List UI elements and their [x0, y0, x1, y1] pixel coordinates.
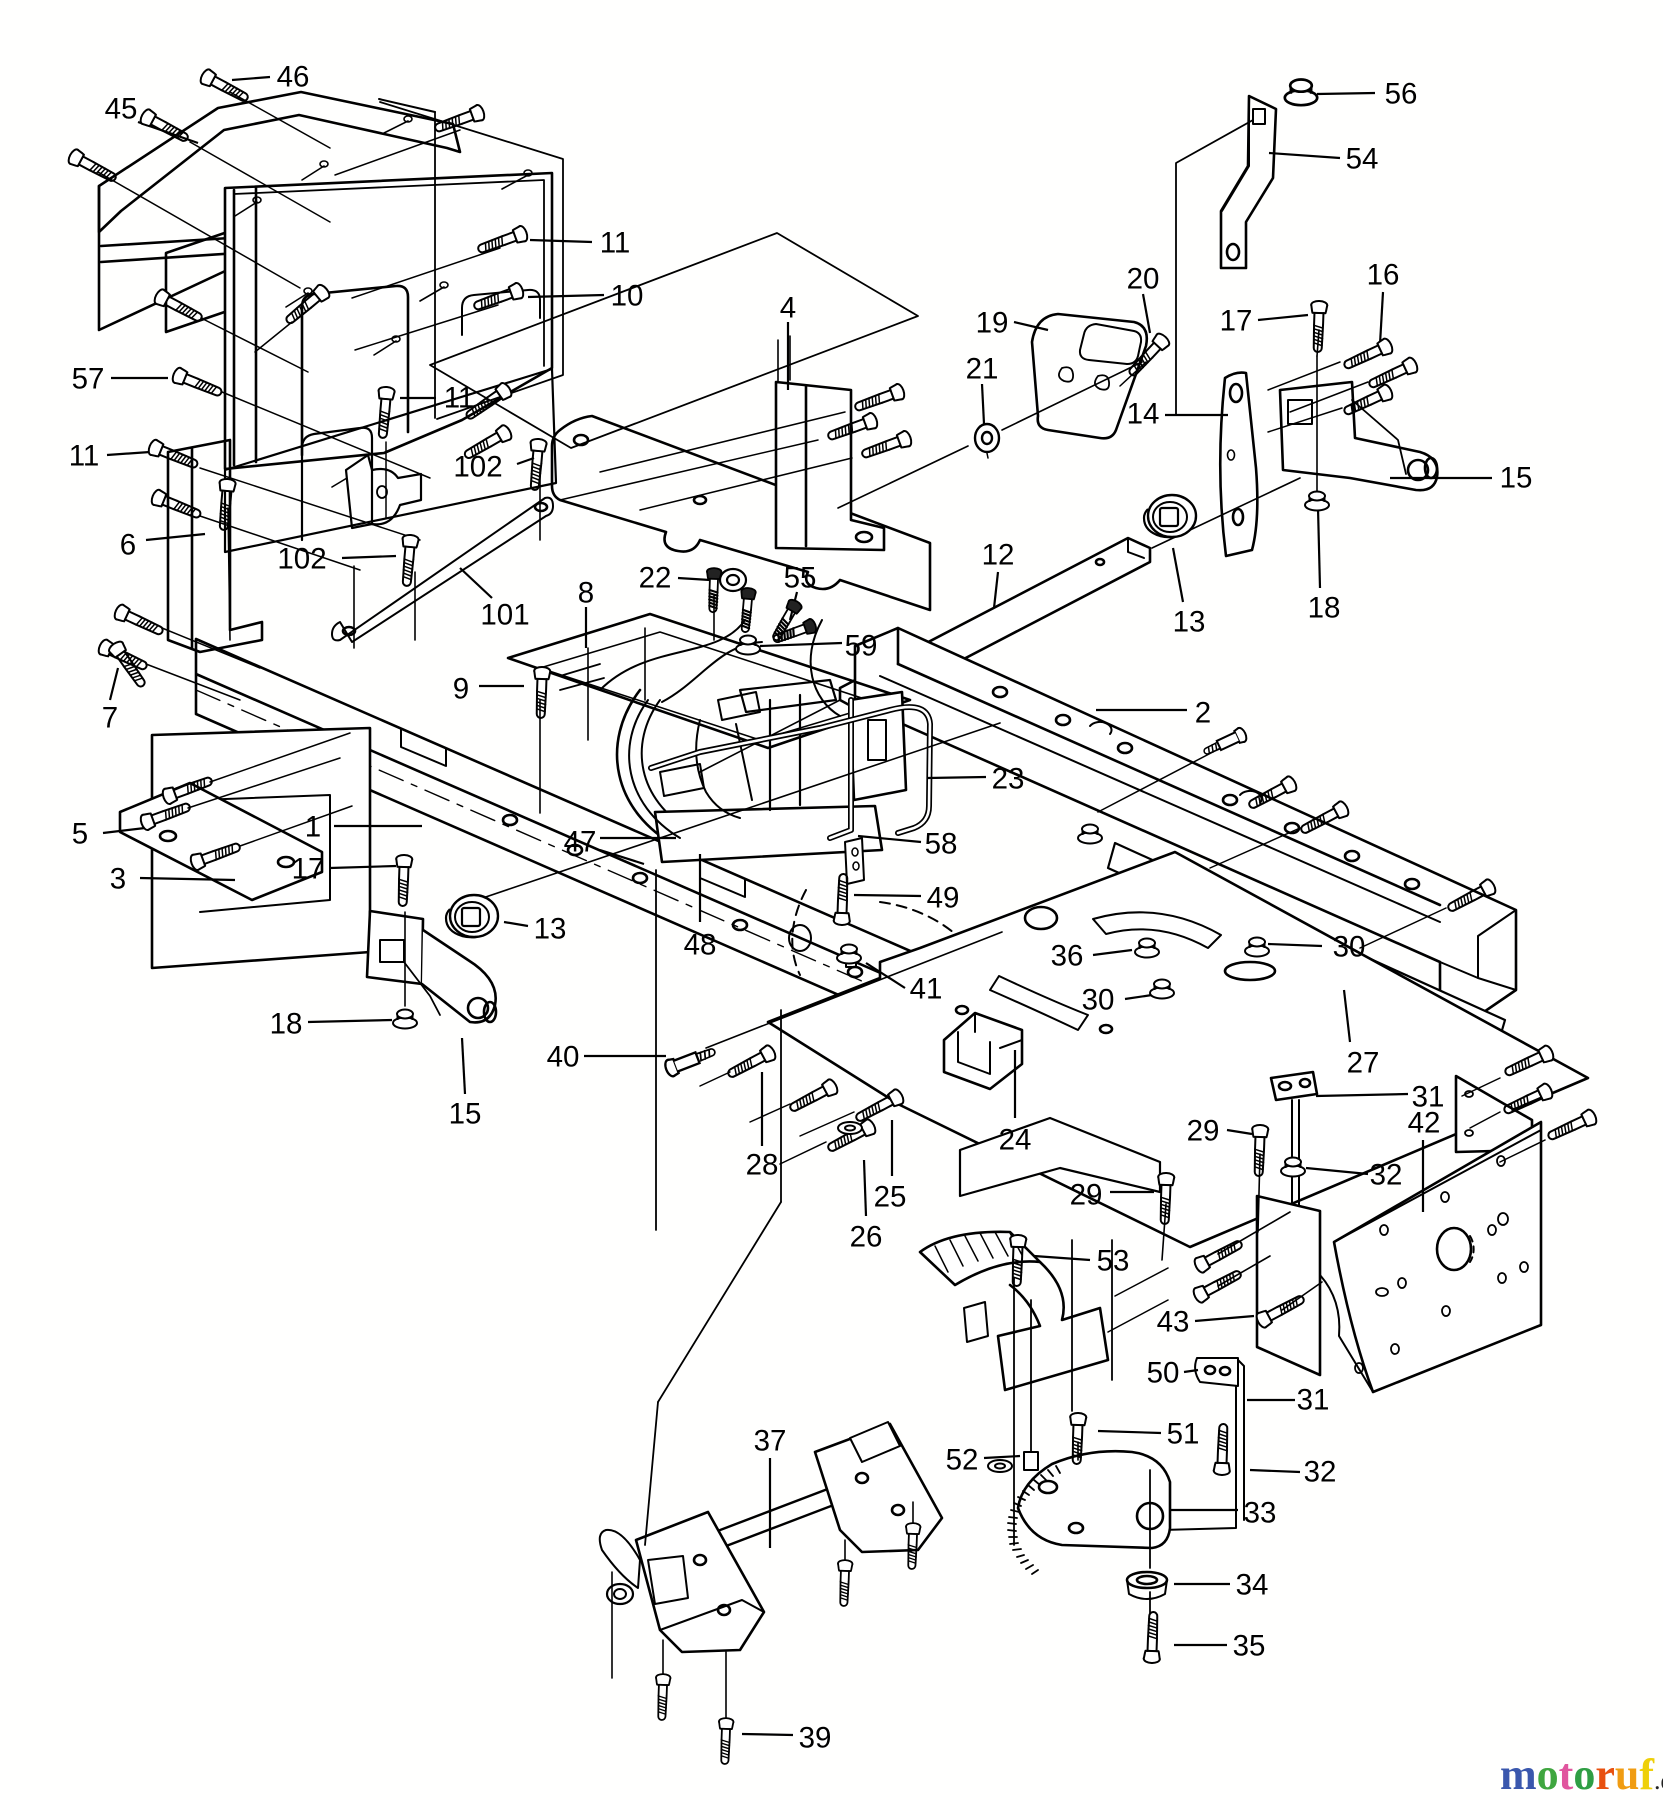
backing plate parallelogram	[430, 233, 918, 448]
panel 10 U-notch	[302, 286, 408, 455]
svg-text:9: 9	[453, 673, 469, 706]
svg-text:23: 23	[992, 763, 1025, 796]
bolt b10	[472, 282, 525, 314]
bolt b51	[1069, 1413, 1087, 1465]
svg-text:29: 29	[1070, 1179, 1103, 1212]
svg-text:101: 101	[480, 599, 529, 632]
crank lever	[600, 1530, 640, 1588]
svg-text:16: 16	[1367, 259, 1400, 292]
bushing 13L	[446, 895, 498, 937]
svg-text:32: 32	[1370, 1159, 1403, 1192]
dashed arcs 49	[880, 902, 992, 1008]
svg-text:39: 39	[799, 1722, 832, 1755]
svg-text:6: 6	[120, 529, 136, 562]
svg-text:40: 40	[547, 1041, 580, 1074]
bolt b43	[1255, 1291, 1308, 1329]
collar 22	[720, 569, 746, 591]
bolt b5a	[139, 799, 192, 831]
svg-text:48: 48	[684, 929, 717, 962]
bolt4 axes	[600, 412, 845, 472]
svg-text:35: 35	[1233, 1630, 1266, 1663]
svg-text:8: 8	[578, 577, 594, 610]
stud rail2	[1201, 726, 1248, 759]
rear panel 11	[380, 102, 563, 419]
bolt d55c	[771, 618, 817, 647]
mid shelf panel	[552, 416, 930, 610]
bolt b28	[725, 1044, 778, 1082]
rod 31b	[1236, 1360, 1244, 1456]
svg-text:7: 7	[102, 702, 118, 735]
svg-text:24: 24	[999, 1124, 1032, 1157]
gear teeth	[1008, 1466, 1060, 1574]
svg-text:47: 47	[564, 826, 597, 859]
bolt b53	[1009, 1235, 1027, 1287]
svg-text:2: 2	[1195, 697, 1211, 730]
washer wx	[838, 1122, 862, 1134]
stud 40	[663, 1043, 717, 1078]
pin-hole marks	[235, 121, 528, 487]
bolt b11m	[375, 386, 395, 438]
bolt b42b	[1501, 1082, 1554, 1118]
svg-text:43: 43	[1157, 1306, 1190, 1339]
svg-text:55: 55	[784, 562, 817, 595]
bracket 15R	[1280, 382, 1437, 490]
svg-text:13: 13	[1173, 606, 1206, 639]
svg-text:20: 20	[1127, 263, 1160, 296]
bolt d55a	[738, 588, 756, 633]
bolt b45a	[139, 108, 192, 146]
tube 12	[840, 538, 1150, 712]
svg-text:53: 53	[1097, 1245, 1130, 1278]
svg-text:36: 36	[1051, 940, 1084, 973]
svg-text:30: 30	[1333, 931, 1366, 964]
bolt b4b	[826, 412, 879, 444]
bolt bx5	[216, 478, 236, 530]
box 42	[1456, 1076, 1532, 1152]
bolt br2a	[1246, 775, 1299, 813]
svg-text:17: 17	[1220, 305, 1253, 338]
nut n30a	[1245, 938, 1269, 957]
svg-text:57: 57	[72, 363, 105, 396]
svg-text:19: 19	[976, 307, 1009, 340]
left mount plate	[636, 1512, 764, 1652]
bolt br2c	[1445, 878, 1498, 916]
bolt b25	[853, 1088, 906, 1126]
svg-text:42: 42	[1408, 1107, 1441, 1140]
svg-text:14: 14	[1127, 398, 1160, 431]
bolt b29a	[1251, 1125, 1269, 1177]
under bracket	[960, 1118, 1160, 1196]
bolt b11	[476, 225, 529, 257]
bolt b16a	[1341, 337, 1394, 373]
svg-text:29: 29	[1187, 1115, 1220, 1148]
svg-text:11: 11	[69, 440, 100, 473]
bolt b29b	[1157, 1173, 1175, 1225]
bolt b45c	[153, 288, 206, 326]
bolt b39	[718, 1718, 734, 1764]
bolt b16c	[1341, 383, 1394, 419]
washer w52	[988, 1460, 1012, 1472]
svg-text:15: 15	[1500, 462, 1533, 495]
bolt bx6	[113, 603, 166, 639]
bolt b17L	[395, 855, 413, 907]
svg-text:1: 1	[305, 811, 321, 844]
nut nr2	[1078, 825, 1102, 844]
bolt b5b	[161, 773, 214, 805]
svg-text:28: 28	[746, 1149, 779, 1182]
bolt bx7	[97, 638, 150, 674]
bolt b42d	[1193, 1236, 1246, 1274]
bolt b37a	[905, 1523, 921, 1569]
bolt b37c	[655, 1674, 671, 1720]
svg-text:15: 15	[449, 1098, 482, 1131]
svg-text:52: 52	[946, 1444, 979, 1477]
bolt b46	[199, 68, 252, 106]
svg-text:motoruf.de: motoruf.de	[1500, 1750, 1663, 1799]
svg-text:3: 3	[110, 863, 126, 896]
rear panel U-cut	[462, 290, 540, 335]
bolt b16b	[1366, 356, 1419, 392]
nut n18R	[1305, 492, 1329, 511]
right mount plate	[815, 1424, 942, 1552]
washer 21	[975, 424, 999, 452]
svg-text:46: 46	[277, 61, 310, 94]
pedal 53	[920, 1232, 1040, 1285]
plate 14	[1220, 373, 1257, 556]
svg-text:51: 51	[1167, 1418, 1200, 1451]
svg-text:18: 18	[1308, 592, 1341, 625]
nut n30b	[1150, 980, 1174, 999]
bolt bx4	[150, 488, 203, 522]
bolt b9	[533, 667, 551, 719]
svg-text:22: 22	[639, 562, 672, 595]
rod 58	[830, 700, 851, 838]
bolt d22	[706, 568, 722, 613]
nut n59	[736, 636, 760, 655]
bolt b57	[171, 366, 224, 400]
panel 10	[225, 173, 552, 469]
nut n41	[837, 945, 861, 964]
bolt b42a	[1502, 1044, 1555, 1080]
bracket 15L	[367, 911, 423, 984]
bolt b35	[1144, 1612, 1162, 1664]
bolt b32b	[1214, 1424, 1232, 1476]
nut n36	[1135, 939, 1159, 958]
washer 34	[1127, 1572, 1167, 1588]
bolt b42c	[1545, 1108, 1598, 1144]
bolt b4c	[860, 430, 913, 462]
floor plate	[768, 852, 1588, 1247]
strap left wedge 45	[99, 186, 253, 330]
svg-text:11: 11	[600, 227, 631, 260]
hook 31a	[1271, 1072, 1317, 1100]
bolt b42e	[1192, 1266, 1245, 1304]
svg-text:27: 27	[1347, 1047, 1380, 1080]
bolt 52 long	[1024, 1452, 1038, 1470]
svg-text:34: 34	[1236, 1569, 1269, 1602]
mount 47/48	[617, 690, 740, 858]
inner flap	[166, 226, 245, 332]
svg-text:13: 13	[534, 913, 567, 946]
plate 8	[508, 614, 910, 748]
bolt b37b	[837, 1560, 853, 1606]
bolt b102b	[399, 534, 419, 586]
bolt br2b	[1298, 800, 1351, 838]
rail 1	[196, 639, 1240, 1166]
svg-text:59: 59	[845, 630, 878, 663]
bracket 54	[1221, 96, 1276, 268]
rail 2	[855, 628, 1516, 1016]
svg-text:50: 50	[1147, 1357, 1180, 1390]
bolt b5c	[189, 839, 242, 871]
bolt bx3	[461, 424, 513, 463]
bolt bx8	[787, 1078, 840, 1116]
bolt b45b	[67, 148, 120, 186]
svg-text:45: 45	[105, 93, 138, 126]
plate 27	[1108, 843, 1505, 1044]
bushing 13R	[1144, 495, 1196, 537]
lower mid panel	[225, 369, 556, 552]
bolt b11t	[433, 104, 486, 136]
bolt b20	[1125, 331, 1171, 379]
svg-text:41: 41	[910, 973, 943, 1006]
gear sector 33	[1018, 1451, 1170, 1548]
shaft 37	[652, 1466, 894, 1572]
svg-text:4: 4	[780, 292, 796, 325]
bracket 19	[1032, 314, 1147, 438]
bolt bx1	[282, 283, 331, 328]
svg-text:49: 49	[927, 882, 960, 915]
Z-bracket small	[346, 455, 421, 528]
svg-text:5: 5	[72, 818, 88, 851]
svg-text:30: 30	[1082, 984, 1115, 1017]
svg-text:10: 10	[611, 280, 644, 313]
svg-text:31: 31	[1297, 1384, 1330, 1417]
svg-text:26: 26	[850, 1221, 883, 1254]
bolt axis lines	[230, 92, 330, 148]
svg-text:58: 58	[925, 828, 958, 861]
rod 23	[651, 707, 930, 833]
bolt b7	[107, 639, 149, 690]
bolt b11L	[147, 438, 200, 472]
svg-text:102: 102	[277, 543, 326, 576]
bracket 3	[152, 728, 370, 968]
strip 101	[332, 498, 553, 642]
svg-text:56: 56	[1385, 78, 1418, 111]
svg-text:102: 102	[453, 451, 502, 484]
bracket 6	[168, 440, 262, 652]
svg-text:33: 33	[1244, 1497, 1277, 1530]
bolt b4a	[853, 383, 906, 415]
svg-text:54: 54	[1346, 143, 1379, 176]
bolt d55b	[769, 598, 804, 643]
nut n32a	[1281, 1158, 1305, 1177]
bolt b49	[834, 874, 852, 926]
long group lines	[655, 870, 657, 1230]
strap top-right fold	[379, 99, 435, 112]
svg-text:18: 18	[270, 1008, 303, 1041]
svg-text:37: 37	[754, 1425, 787, 1458]
nut n56	[1285, 80, 1317, 106]
bracket 4	[776, 382, 884, 550]
bracket 46 strap	[99, 92, 460, 232]
bolt b17R	[1310, 301, 1328, 353]
bracket 24	[944, 1013, 1022, 1089]
svg-text:32: 32	[1304, 1456, 1337, 1489]
nut n18L	[393, 1010, 417, 1029]
bolt b102a	[527, 438, 547, 490]
svg-text:21: 21	[966, 353, 999, 386]
bolt bx2	[463, 381, 514, 423]
svg-text:17: 17	[292, 853, 325, 886]
svg-text:25: 25	[874, 1181, 907, 1214]
bolt b26	[825, 1118, 878, 1156]
svg-text:12: 12	[982, 539, 1015, 572]
plate 50	[1195, 1358, 1238, 1386]
